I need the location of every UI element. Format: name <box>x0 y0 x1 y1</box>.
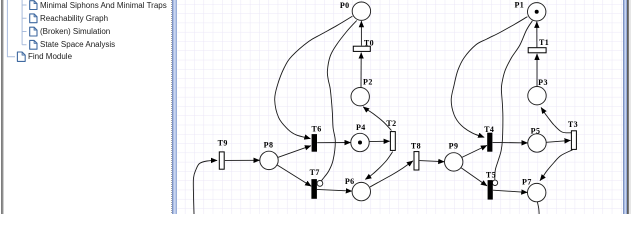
place P8 <box>260 151 278 169</box>
wire P8 to T7 <box>277 165 311 186</box>
transition T4 <box>487 133 492 152</box>
wire P9 to T4 <box>462 145 487 157</box>
svg-text:P3: P3 <box>538 78 548 87</box>
tree row 4 <box>40 39 115 50</box>
wire P0 to T7 inhibitor curve <box>321 21 356 181</box>
wire P7 to bottom edge <box>537 202 539 214</box>
place P7 <box>528 183 546 201</box>
svg-text:P0: P0 <box>340 1 350 10</box>
wire T5 to P7 <box>493 190 527 192</box>
wire P0 to T6 curve <box>275 16 353 139</box>
svg-text:P5: P5 <box>531 126 541 135</box>
icon row3 <box>30 27 37 36</box>
right scrollbar blue bar <box>623 0 627 214</box>
svg-text:T6: T6 <box>312 125 322 134</box>
wire T6 to P4 <box>317 142 350 144</box>
icon row5 <box>17 52 25 61</box>
transition T7 <box>311 179 317 199</box>
svg-text:P2: P2 <box>363 78 373 87</box>
wire P1 to T5 inhibitor curve <box>495 21 533 180</box>
svg-text:P4: P4 <box>356 123 366 132</box>
place P5 <box>528 134 546 152</box>
transition T2 <box>390 132 395 151</box>
wire T3 to P3 curve <box>541 108 571 133</box>
svg-text:T1: T1 <box>539 38 549 47</box>
transition T1 <box>528 48 546 53</box>
token P4 <box>358 141 362 145</box>
tree vertical line root group <box>7 0 15 57</box>
wire P2 to T0 <box>360 53 362 88</box>
tree connector lines <box>0 0 175 214</box>
tree row 1 <box>40 0 167 11</box>
wire T3 to P7 curve <box>540 150 573 181</box>
wire T2 to P6 curve <box>365 152 392 180</box>
right window border <box>627 0 629 214</box>
splitter dotted line <box>171 0 172 214</box>
tree doc icons <box>0 0 175 214</box>
tree row 5 <box>28 51 72 62</box>
svg-text:P7: P7 <box>522 178 532 187</box>
tree row 3 <box>40 26 110 37</box>
svg-text:P9: P9 <box>449 142 459 151</box>
svg-text:T0: T0 <box>364 38 374 47</box>
transition T6 <box>312 134 317 152</box>
wire into T9 from bottom <box>193 160 217 214</box>
inhibitor circle T5 <box>492 180 497 185</box>
place P1 <box>528 3 546 21</box>
wire P6 to T8 curve <box>370 161 413 187</box>
tree vertical line inner group <box>22 0 26 45</box>
svg-text:T2: T2 <box>386 119 396 128</box>
wire P3 to T1 <box>536 54 538 87</box>
svg-text:P6: P6 <box>345 177 355 186</box>
inhibitor circle T7 <box>317 181 323 187</box>
icon row4 <box>30 40 37 49</box>
transition T3 <box>571 131 576 150</box>
transition T5 <box>488 180 493 200</box>
svg-text:T9: T9 <box>218 139 228 148</box>
wire P4 to T2 <box>369 140 389 142</box>
wire P1 to T4 curve <box>451 17 527 138</box>
left scrollbar blue bar <box>172 0 177 214</box>
wire T1 to P1 <box>536 22 538 47</box>
wire T0 to P0 <box>360 21 362 45</box>
wire T9 to P8 <box>225 159 260 161</box>
svg-text:P8: P8 <box>264 141 274 150</box>
transition T9 <box>219 152 224 169</box>
transition T0 <box>353 46 370 51</box>
svg-text:T3: T3 <box>568 120 578 129</box>
wire T4 to P5 <box>493 141 528 144</box>
place P4 <box>351 133 369 151</box>
wire P8 to T6 <box>278 146 311 158</box>
svg-text:T4: T4 <box>484 125 494 134</box>
icon row2 <box>30 14 37 23</box>
token P1 <box>535 10 539 14</box>
wire T8 to P9 <box>420 161 445 162</box>
svg-text:T8: T8 <box>411 141 421 150</box>
canvas grid <box>177 0 623 214</box>
wire P9 to T5 <box>461 168 487 186</box>
place P6 <box>352 182 370 200</box>
transition T8 <box>414 152 419 170</box>
wire T2 to P2 curve <box>363 107 391 131</box>
place P9 <box>445 153 463 171</box>
svg-text:T7: T7 <box>310 168 320 177</box>
wire P5 to T3 <box>546 140 570 142</box>
place P0 <box>352 2 370 20</box>
wire T7 to P6 <box>317 189 352 191</box>
tree row 2 <box>40 13 108 24</box>
place P3 <box>528 87 546 105</box>
icon row1 <box>30 1 37 10</box>
svg-text:T5: T5 <box>486 170 496 179</box>
left window border <box>1 0 3 214</box>
place P2 <box>351 88 369 106</box>
svg-text:P1: P1 <box>514 0 524 9</box>
